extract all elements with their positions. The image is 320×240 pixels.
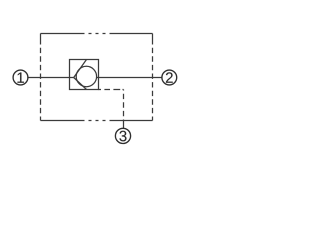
valve envelope dashed box bottom edge [41,120,153,122]
port 1 label digit 1 [17,72,23,82]
port 2 circle [162,70,177,85]
check valve seat lower line [74,78,87,90]
port 1 circle [13,70,28,85]
pilot dashed line horizontal segment [99,89,124,91]
valve envelope dashed box left edge [40,34,42,121]
port 3 label digit 3 [119,131,126,142]
pilot dashed line vertical segment to port 3 [123,90,125,129]
check valve ball [76,66,96,86]
port 2 label digit 2 [166,72,173,82]
wire main flow line port1 to seat apex [27,77,73,79]
wire main flow line ball to port2 [97,77,162,79]
valve envelope dashed box top edge [41,33,153,35]
port 3 circle [115,128,130,143]
check valve body square [70,60,99,90]
valve envelope dashed box right edge [152,34,154,121]
check valve seat upper line [74,60,87,78]
